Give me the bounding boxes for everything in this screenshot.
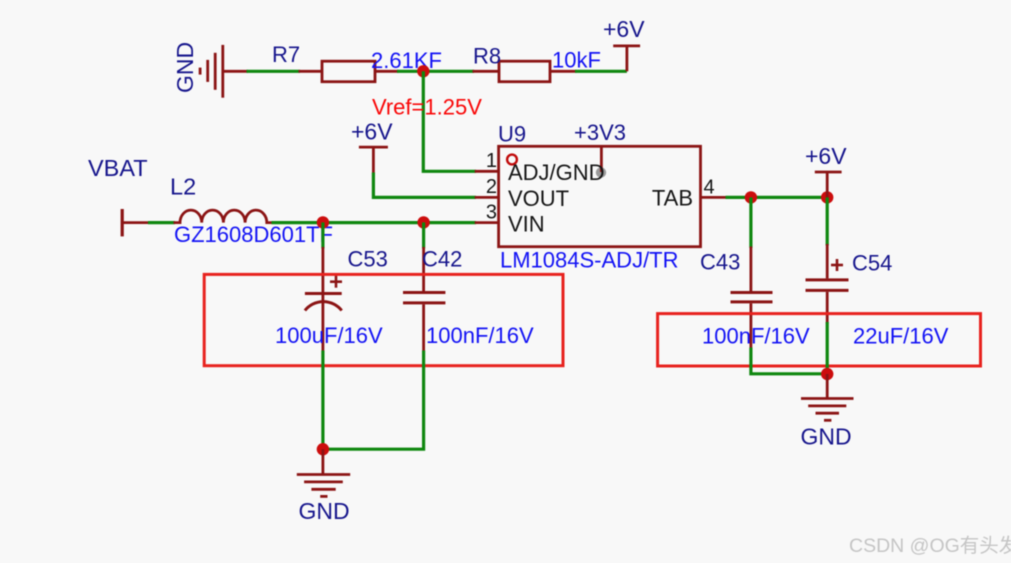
wire (green) C43 bottom to node [751,348,827,374]
wire to right GND [826,374,829,399]
svg-text:C43: C43 [700,250,740,275]
svg-text:+6V: +6V [351,119,393,145]
svg-text:C53: C53 [348,247,388,272]
wire (green) +6V to pin 2 [373,173,476,198]
svg-text:1: 1 [486,150,497,172]
svg-text:ADJ/GND: ADJ/GND [508,160,605,185]
svg-text:C42: C42 [422,247,462,272]
junction C54 node [821,191,833,203]
wire (green) R7 to R8 [397,70,474,73]
junction C53 node [317,216,329,228]
svg-text:R8: R8 [473,44,501,69]
pin 1 stub [475,170,499,173]
svg-text:4: 4 [704,176,715,198]
power +6V right [815,172,842,197]
svg-text:2: 2 [486,176,497,198]
inductor L2 [174,210,274,223]
wire (green) pin 4 to +6V [726,196,828,199]
wire (green) main VBAT line to pin 3 [272,221,477,224]
highlight box right [658,314,981,366]
pin 1 indicator circle [507,155,517,165]
junction Vref node [417,65,429,77]
svg-text:C54: C54 [852,251,892,276]
wire (green) R8 to +6V [575,70,627,73]
pin 4 stub [701,196,728,199]
ground GND right [801,399,854,421]
svg-text:TAB: TAB [652,185,693,210]
capacitor C42 [403,222,445,352]
svg-text:GND: GND [801,424,852,450]
svg-text:2.61KF: 2.61KF [371,48,442,73]
power +6V middle [359,147,388,174]
capacitor C53 [305,222,342,352]
svg-text:VBAT: VBAT [88,155,148,181]
svg-text:U9: U9 [498,122,526,147]
highlight box left [204,274,563,365]
pin 3 stub [475,221,499,224]
power +6V top-right [613,46,640,71]
junction right GND node [821,368,833,380]
svg-text:22uF/16V: 22uF/16V [853,324,949,349]
power +3V3 drop line [600,147,603,172]
wire (green) C42 bottom [323,351,424,450]
wire (green) VBAT to L2 [148,221,175,224]
svg-text:3: 3 [486,202,497,224]
pin 2 stub [475,196,499,199]
svg-text:LM1084S-ADJ/TR: LM1084S-ADJ/TR [500,247,679,272]
ground GND top-left [200,45,223,98]
svg-text:CSDN @OG有头发: CSDN @OG有头发 [849,535,1011,557]
svg-text:GND: GND [299,498,350,524]
svg-text:VIN: VIN [508,211,545,236]
capacitor C43 [731,197,773,349]
capacitor C54 [806,197,849,323]
svg-text:Vref=1.25V: Vref=1.25V [372,95,482,120]
svg-text:VOUT: VOUT [508,186,569,211]
ground GND bottom [297,475,350,497]
svg-text:GZ1608D601TF: GZ1608D601TF [174,222,333,247]
wire (green) Vref vertical down to pin 1 [423,71,476,171]
wire to bottom GND [321,449,324,474]
IC U9 body [499,146,701,246]
svg-text:100nF/16V: 100nF/16V [426,323,534,348]
wire (green) GND to R7 [247,70,301,73]
svg-text:100nF/16V: 100nF/16V [702,324,810,349]
svg-text:100uF/16V: 100uF/16V [275,323,383,348]
node dot gray +3V3 [596,167,606,177]
resistor R8 [473,61,577,81]
svg-text:10kF: 10kF [552,48,601,73]
svg-text:GND: GND [172,42,198,93]
wire GND pin to R7 (dark red stub) [223,70,248,73]
svg-text:+3V3: +3V3 [574,120,626,145]
svg-text:R7: R7 [272,42,300,67]
svg-text:+6V: +6V [805,143,847,169]
wire (green) C53 bottom [321,351,324,450]
port VBAT terminal [122,209,149,236]
wire (green) C54 bottom to node [826,322,829,374]
junction C42 node [417,216,429,228]
resistor R7 [299,61,399,81]
svg-text:L2: L2 [170,174,196,200]
junction bottom GND node [317,443,329,455]
svg-text:+6V: +6V [603,16,645,42]
junction C43 node [745,191,757,203]
